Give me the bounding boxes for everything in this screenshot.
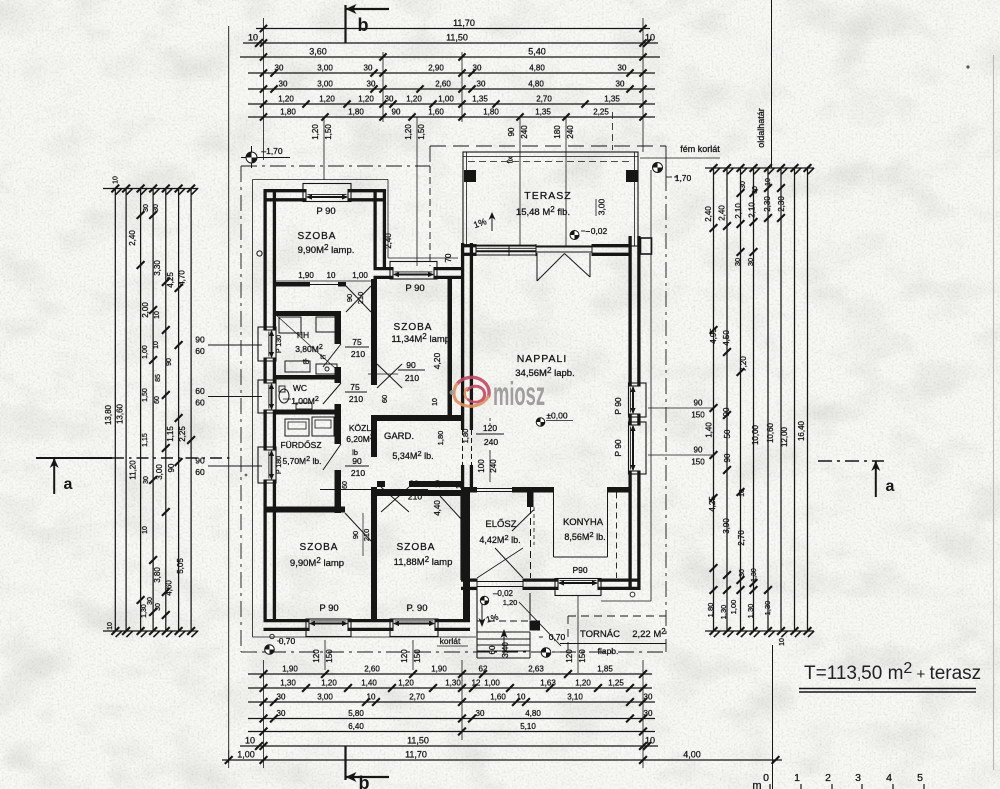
svg-text:150: 150 (578, 649, 587, 663)
svg-text:10: 10 (517, 693, 526, 702)
svg-text:75: 75 (350, 382, 360, 392)
ELOSZ walls (461, 487, 477, 493)
svg-text:10: 10 (248, 33, 258, 43)
svg-text:16,40: 16,40 (797, 420, 806, 441)
scan artifacts right edge (993, 55, 995, 770)
svg-text:10: 10 (153, 341, 160, 349)
terrace door swing leaves (536, 253, 538, 281)
svg-text:30: 30 (644, 693, 653, 702)
svg-text:3,00: 3,00 (155, 464, 164, 480)
svg-text:30: 30 (477, 80, 486, 89)
svg-text:5,40: 5,40 (528, 47, 546, 57)
svg-text:1,00: 1,00 (438, 95, 454, 104)
benchmark top right (653, 163, 663, 173)
svg-text:10: 10 (245, 736, 255, 746)
svg-text:3,40: 3,40 (501, 642, 510, 658)
svg-text:5: 5 (917, 772, 923, 784)
svg-text:1,25: 1,25 (608, 679, 624, 688)
svg-text:4,95: 4,95 (709, 328, 718, 344)
svg-text:30: 30 (733, 258, 742, 266)
svg-text:4,80: 4,80 (528, 80, 544, 89)
svg-text:10,00: 10,00 (751, 424, 760, 445)
svg-text:1,20: 1,20 (358, 95, 374, 104)
svg-text:10: 10 (435, 480, 442, 488)
svg-text:15,48 M2 flb.: 15,48 M2 flb. (516, 205, 570, 218)
svg-text:1,90: 1,90 (298, 271, 314, 280)
szoba top-left inner partition with door (276, 282, 310, 287)
svg-text:P 90: P 90 (316, 206, 335, 217)
svg-text:90: 90 (406, 360, 416, 370)
scale bar (772, 645, 774, 789)
svg-text:fém korlát: fém korlát (680, 144, 720, 154)
svg-text:1,85: 1,85 (597, 665, 613, 674)
svg-text:1,00M2: 1,00M2 (291, 394, 319, 406)
svg-text:30: 30 (618, 64, 627, 73)
svg-text:11,34M2 lamp.: 11,34M2 lamp. (391, 332, 452, 345)
svg-text:13,80: 13,80 (104, 404, 113, 425)
svg-text:30: 30 (147, 597, 154, 605)
north wall middle room + window (374, 267, 394, 270)
svg-text:90: 90 (345, 294, 354, 302)
south wall east part with entrance and kitchen window (461, 578, 477, 581)
fixed glazing band terasz wall (476, 244, 536, 246)
svg-text:TERASZ: TERASZ (524, 190, 571, 202)
svg-text:1,40: 1,40 (361, 679, 377, 688)
svg-text:1,80: 1,80 (706, 603, 715, 618)
svg-text:1,80: 1,80 (483, 108, 499, 117)
svg-text:1,20: 1,20 (575, 679, 591, 688)
svg-text:30: 30 (740, 181, 747, 189)
svg-text:90: 90 (167, 463, 176, 472)
svg-text:210: 210 (405, 373, 419, 383)
svg-text:1,35: 1,35 (535, 108, 551, 117)
section marker a right (818, 460, 884, 462)
svg-text:1,60: 1,60 (490, 693, 506, 702)
svg-text:m: m (752, 780, 761, 789)
NAPPALI west wall (461, 243, 464, 430)
svg-text:180: 180 (553, 125, 562, 139)
small circle mark on west wall (257, 251, 262, 256)
svg-text:60: 60 (195, 386, 205, 396)
SZOBA bottom rooms walls (371, 513, 377, 619)
svg-text:2,60: 2,60 (435, 80, 451, 89)
svg-text:30: 30 (275, 64, 284, 73)
svg-text:1,35: 1,35 (604, 95, 620, 104)
90/210 dim middle szoba door (368, 373, 398, 375)
svg-text:1,20: 1,20 (321, 679, 337, 688)
svg-text:62: 62 (479, 665, 488, 674)
svg-text:2,22 M2: 2,22 M2 (632, 627, 666, 640)
svg-text:2,30: 2,30 (777, 196, 786, 212)
benchmark top left with -1,70 (241, 157, 290, 159)
porch column (530, 621, 541, 631)
benchmark terrace -0,02 (570, 231, 579, 240)
svg-text:90: 90 (195, 456, 205, 466)
svg-text:5,70M2 lb.: 5,70M2 lb. (283, 454, 322, 466)
svg-text:ELŐSZ: ELŐSZ (485, 519, 516, 530)
svg-text:0,70: 0,70 (279, 636, 296, 646)
svg-text:3,90: 3,90 (722, 518, 731, 534)
svg-text:2,00: 2,00 (141, 302, 150, 318)
svg-text:TORNÁC: TORNÁC (580, 629, 620, 640)
svg-text:P 90: P 90 (405, 283, 424, 294)
svg-text:1,15: 1,15 (166, 426, 175, 442)
75/210 door dim WC (345, 391, 367, 393)
KOZL/middle vertical wall (371, 279, 377, 385)
entry steps (476, 590, 478, 658)
svg-text:1,60: 1,60 (428, 108, 444, 117)
svg-text:12,00: 12,00 (780, 426, 789, 447)
svg-text:korlát: korlát (440, 636, 461, 646)
svg-text:11,88M2 lamp: 11,88M2 lamp (394, 555, 453, 568)
svg-text:1,70: 1,70 (675, 173, 692, 183)
svg-text:P 90: P 90 (613, 439, 623, 457)
svg-text:4,50: 4,50 (722, 330, 731, 346)
svg-text:1,20: 1,20 (311, 124, 320, 140)
svg-text:30: 30 (752, 186, 759, 194)
svg-text:90: 90 (723, 453, 732, 462)
svg-text:4,70: 4,70 (178, 270, 187, 286)
svg-text:tc: tc (320, 352, 326, 361)
svg-text:2,40: 2,40 (704, 206, 713, 222)
svg-text:90: 90 (351, 531, 360, 539)
svg-text:3,30: 3,30 (153, 260, 162, 276)
svg-text:1,63: 1,63 (540, 679, 556, 688)
svg-text:30: 30 (364, 64, 373, 73)
svg-text:P 90: P 90 (613, 397, 623, 415)
svg-text:P90: P90 (572, 565, 587, 575)
svg-text:1,80: 1,80 (280, 108, 296, 117)
svg-text:3,80M2: 3,80M2 (295, 342, 323, 354)
svg-text:30: 30 (367, 80, 376, 89)
svg-text:4: 4 (886, 772, 892, 784)
svg-text:SZOBA: SZOBA (397, 542, 436, 553)
svg-text:2: 2 (825, 772, 831, 784)
svg-text:1,30: 1,30 (746, 604, 755, 619)
svg-text:210: 210 (351, 349, 365, 359)
svg-text:85: 85 (155, 374, 162, 382)
svg-text:2,40: 2,40 (718, 205, 727, 221)
svg-text:GARD.: GARD. (384, 431, 414, 442)
svg-text:90: 90 (195, 335, 205, 345)
svg-text:1,20: 1,20 (406, 95, 422, 104)
svg-text:P 90: P 90 (319, 603, 338, 614)
interior walls west rooms (HH WC FURDO) (276, 311, 341, 316)
svg-text:1,00: 1,00 (729, 600, 738, 615)
svg-text:6,20M2: 6,20M2 (346, 432, 374, 444)
NAPPALI NE pier (641, 238, 652, 254)
svg-text:1,00: 1,00 (352, 271, 368, 280)
svg-text:5,80: 5,80 (348, 709, 364, 718)
svg-text:1,80: 1,80 (461, 429, 470, 444)
left dimension chain (vertical) (114, 189, 116, 632)
eaves thin outline (252, 180, 254, 638)
WC fixtures (279, 389, 289, 403)
svg-text:8,56M2 lb.: 8,56M2 lb. (564, 530, 605, 542)
svg-text:4,42M2 lb.: 4,42M2 lb. (479, 533, 520, 545)
exterior walls west block (263, 190, 266, 330)
svg-text:0: 0 (763, 772, 769, 784)
svg-text:2,63: 2,63 (528, 665, 544, 674)
svg-text:oldalhatár: oldalhatár (756, 108, 766, 148)
svg-text:11,50: 11,50 (446, 33, 468, 43)
vertical extension lines bottom band (263, 660, 265, 768)
svg-text:1,50: 1,50 (142, 388, 149, 402)
svg-text:1,00: 1,00 (484, 679, 500, 688)
svg-text:10: 10 (107, 622, 114, 630)
svg-text:30: 30 (279, 80, 288, 89)
svg-text:fix: fix (508, 156, 515, 164)
svg-text:210: 210 (349, 394, 363, 404)
ramp diagonal at porch (519, 602, 561, 646)
svg-text:3,60: 3,60 (309, 47, 327, 57)
svg-text:1,50: 1,50 (417, 124, 426, 140)
svg-text:60: 60 (154, 396, 161, 404)
svg-text:1,00: 1,00 (142, 345, 149, 359)
svg-text:3,80: 3,80 (153, 567, 162, 583)
door middle szoba leaf (377, 364, 402, 388)
door leaves west rooms (323, 344, 341, 367)
left leader dims to west wall windows (208, 344, 262, 346)
svg-text:1,30: 1,30 (280, 679, 296, 688)
svg-text:60: 60 (195, 467, 205, 477)
svg-text:60: 60 (195, 398, 205, 408)
svg-text:T=113,50 m2 + terasz: T=113,50 m2 + terasz (804, 660, 981, 684)
svg-text:1,80: 1,80 (436, 431, 445, 446)
svg-text:1,30: 1,30 (763, 601, 772, 616)
svg-text:2,70: 2,70 (409, 693, 425, 702)
svg-text:2,10: 2,10 (734, 203, 743, 219)
svg-text:90: 90 (352, 456, 362, 466)
svg-text:3,00: 3,00 (317, 64, 333, 73)
svg-text:30: 30 (277, 709, 286, 718)
section marker b top (344, 5, 346, 43)
benchmark -0,70 bottom middle (541, 648, 551, 658)
svg-text:13,60: 13,60 (116, 403, 125, 424)
svg-text:b: b (358, 15, 369, 35)
svg-text:0,70: 0,70 (549, 632, 566, 642)
svg-text:4,00: 4,00 (683, 750, 701, 760)
west wall windows (258, 327, 276, 361)
svg-text:60: 60 (342, 481, 349, 489)
benchmark -0,70 bottom left (265, 645, 275, 655)
svg-text:10: 10 (432, 398, 439, 406)
svg-text:30: 30 (644, 709, 653, 718)
elosz door leaf (512, 510, 534, 531)
svg-text:75: 75 (352, 337, 362, 347)
svg-text:4,25: 4,25 (166, 272, 175, 288)
svg-text:1,15: 1,15 (142, 433, 149, 447)
svg-text:1,35: 1,35 (472, 95, 488, 104)
svg-text:100: 100 (477, 459, 486, 473)
porch dashed outline (568, 615, 666, 617)
svg-text:1,20: 1,20 (404, 124, 413, 140)
75/210 door dim HH (345, 346, 369, 348)
svg-text:150: 150 (325, 649, 334, 663)
svg-text:90: 90 (166, 358, 173, 366)
svg-text:30: 30 (746, 258, 755, 266)
svg-text:10: 10 (779, 638, 786, 646)
svg-text:90: 90 (409, 479, 419, 489)
svg-text:30: 30 (143, 476, 150, 484)
svg-text:10: 10 (456, 481, 463, 489)
middle szoba east wall (448, 279, 453, 415)
svg-text:30: 30 (473, 64, 482, 73)
svg-text:120: 120 (400, 649, 409, 663)
svg-text:a: a (886, 478, 895, 495)
svg-text:2,25: 2,25 (178, 426, 187, 442)
svg-text:1,30: 1,30 (751, 568, 758, 582)
svg-text:1,20: 1,20 (319, 95, 335, 104)
svg-text:SZOBA: SZOBA (298, 231, 337, 242)
svg-text:60: 60 (488, 645, 497, 654)
svg-text:flapb.: flapb. (598, 646, 619, 656)
svg-text:4,80: 4,80 (525, 709, 541, 718)
svg-text:1,20: 1,20 (278, 95, 294, 104)
NAPPALI top wall with terrace door (461, 244, 476, 247)
entrance door at ELOSZ (477, 581, 523, 583)
svg-text:30: 30 (143, 204, 150, 212)
terrace slab outline (463, 152, 638, 246)
section marker a left (36, 457, 112, 459)
right leader dims to east wall windows (648, 407, 714, 409)
svg-text:P 130: P 130 (276, 335, 283, 353)
section marker b bottom (344, 746, 346, 780)
svg-text:2,40: 2,40 (128, 230, 137, 246)
svg-text:90: 90 (694, 399, 703, 408)
svg-text:NAPPALI: NAPPALI (517, 353, 568, 365)
steps annotations (480, 596, 488, 604)
svg-text:SZOBA: SZOBA (300, 542, 339, 553)
miosz watermark logo (450, 377, 490, 406)
svg-text:1,30: 1,30 (445, 679, 461, 688)
svg-text:HH: HH (297, 330, 309, 340)
nappali-gard opening dims 120/240 100/240 (476, 433, 504, 435)
svg-text:11,70: 11,70 (453, 18, 475, 28)
svg-text:2,30: 2,30 (763, 196, 772, 212)
svg-text:10: 10 (142, 526, 149, 534)
1% down arrow (481, 604, 483, 624)
svg-text:0,02: 0,02 (591, 226, 608, 236)
svg-text:240: 240 (484, 437, 498, 447)
svg-text:a: a (64, 476, 73, 493)
svg-text:10: 10 (765, 178, 772, 186)
svg-text:–0,02: –0,02 (493, 589, 514, 598)
svg-text:–1,70: –1,70 (261, 146, 283, 156)
svg-text:150: 150 (691, 411, 705, 420)
svg-text:4,25: 4,25 (708, 496, 717, 512)
svg-text:4,20: 4,20 (432, 352, 442, 369)
svg-text:10: 10 (154, 311, 161, 319)
svg-text:30: 30 (616, 80, 625, 89)
svg-text:10: 10 (367, 693, 376, 702)
svg-text:KONYHA: KONYHA (563, 517, 604, 528)
benchmark 0,00 (536, 418, 545, 427)
svg-text:10: 10 (739, 489, 746, 497)
svg-text:1,20: 1,20 (503, 598, 518, 607)
steps arrow up (503, 632, 505, 654)
svg-text:11,70: 11,70 (405, 750, 427, 760)
svg-text:1,20: 1,20 (398, 679, 414, 688)
svg-text:4,80: 4,80 (529, 64, 545, 73)
terrace roof dashed line (468, 161, 633, 163)
svg-text:240: 240 (566, 125, 575, 139)
svg-text:3: 3 (855, 772, 861, 784)
svg-text:1,40: 1,40 (705, 422, 714, 438)
top dimension chain rows (256, 28, 650, 30)
svg-text:5,34M2 lb.: 5,34M2 lb. (392, 449, 433, 461)
svg-text:90: 90 (507, 127, 516, 136)
svg-text:5,05: 5,05 (176, 558, 185, 574)
svg-text:30: 30 (155, 603, 162, 611)
svg-text:P. 90: P. 90 (407, 603, 428, 614)
terrace pillars (464, 170, 476, 182)
svg-text:11,50: 11,50 (407, 736, 429, 746)
svg-text:1,50: 1,50 (324, 124, 333, 140)
svg-text:1,90: 1,90 (282, 665, 298, 674)
svg-text:1,80: 1,80 (348, 108, 364, 117)
svg-text:120: 120 (565, 649, 574, 663)
svg-text:210: 210 (351, 468, 365, 478)
svg-text:KÖZL: KÖZL (349, 423, 371, 433)
property line left (solid thin) (228, 26, 230, 763)
svg-text:2,60: 2,60 (364, 665, 380, 674)
entrance door leaf diagonal (495, 548, 523, 578)
svg-text:30: 30 (153, 204, 160, 212)
svg-text:150: 150 (413, 649, 422, 663)
KONYHA walls and counter (607, 487, 629, 493)
svg-text:3,10: 3,10 (567, 693, 583, 702)
svg-text:4,60: 4,60 (165, 580, 174, 596)
svg-text:6,40: 6,40 (348, 722, 364, 731)
svg-text:2,70: 2,70 (737, 530, 746, 546)
svg-text:90: 90 (722, 407, 731, 416)
terrace slope arrow 1% (491, 213, 493, 231)
svg-text:1,30: 1,30 (719, 605, 728, 620)
svg-text:2,90: 2,90 (428, 64, 444, 73)
svg-text:1,30: 1,30 (141, 604, 148, 618)
svg-text:50: 50 (723, 429, 732, 438)
svg-text:3,00: 3,00 (317, 693, 333, 702)
svg-text:240: 240 (520, 125, 529, 139)
svg-text:2,10: 2,10 (748, 202, 757, 218)
svg-text:60: 60 (380, 395, 389, 403)
svg-text:1: 1 (794, 772, 800, 784)
svg-text:miosz: miosz (493, 375, 545, 412)
svg-text:±0,00: ±0,00 (546, 411, 567, 421)
right dimension chain (vertical) (713, 168, 715, 631)
door leaf top-left room (346, 286, 371, 312)
konyha counter thin outline (553, 493, 555, 558)
svg-text:30: 30 (277, 693, 286, 702)
svg-text:3,00: 3,00 (597, 198, 607, 215)
svg-text:10: 10 (113, 176, 120, 184)
szoba 11,88 door leaf (440, 496, 463, 521)
svg-text:2,70: 2,70 (536, 95, 552, 104)
NAPPALI east wall with two windows (628, 236, 631, 386)
bottom dimension chain rows (248, 673, 652, 675)
svg-text:4,40: 4,40 (433, 500, 442, 516)
svg-text:7,20: 7,20 (739, 356, 748, 372)
svg-text:10,60: 10,60 (766, 422, 775, 443)
svg-text:30: 30 (476, 709, 485, 718)
svg-text:2,25: 2,25 (593, 108, 609, 117)
north wall of west block with window (264, 189, 307, 192)
svg-text:10: 10 (327, 271, 336, 280)
svg-text:30: 30 (739, 569, 746, 577)
svg-text:tb: tb (303, 357, 309, 366)
svg-text:70: 70 (444, 253, 453, 262)
